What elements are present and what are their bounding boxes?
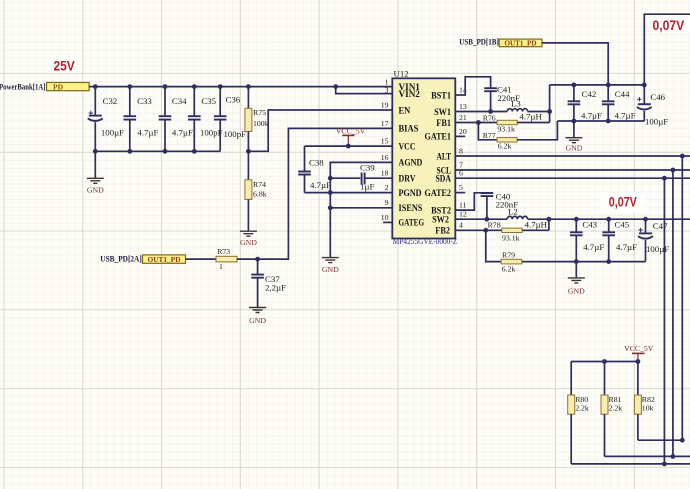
svg-text:L2: L2 <box>508 207 518 217</box>
svg-text:GND: GND <box>87 186 104 195</box>
capacitor C36 <box>214 87 246 152</box>
svg-text:4.7µF: 4.7µF <box>172 128 193 138</box>
pin numbers left column <box>381 77 389 221</box>
svg-text:L3: L3 <box>511 99 521 109</box>
svg-text:GND: GND <box>565 143 582 152</box>
svg-text:C39: C39 <box>360 162 375 172</box>
resistor R76 <box>483 114 550 134</box>
label 25V <box>48 56 80 73</box>
svg-text:100pF: 100pF <box>224 129 247 139</box>
svg-text:C32: C32 <box>103 96 118 106</box>
wire port OUT1 down to rail <box>542 43 608 85</box>
svg-text:2,2µF: 2,2µF <box>265 282 286 292</box>
svg-text:VCC_5V: VCC_5V <box>624 344 654 353</box>
svg-text:C42: C42 <box>582 89 597 99</box>
svg-text:18: 18 <box>381 169 389 178</box>
svg-text:4.7µH: 4.7µH <box>525 219 548 229</box>
svg-text:9: 9 <box>385 198 389 207</box>
svg-text:SDA: SDA <box>436 175 452 185</box>
svg-text:93.1k: 93.1k <box>502 234 520 243</box>
wire divider to EN <box>248 110 392 151</box>
svg-text:0,07V: 0,07V <box>609 195 637 210</box>
svg-text:ALT: ALT <box>437 152 452 162</box>
svg-text:100µF: 100µF <box>646 244 669 254</box>
svg-text:100µF: 100µF <box>101 128 124 138</box>
node ALT column <box>680 154 685 159</box>
svg-text:R74: R74 <box>253 180 266 189</box>
node C41 on SW1 <box>488 109 493 114</box>
wire SCL pin 7 <box>455 169 690 171</box>
svg-text:R76: R76 <box>483 114 496 123</box>
port PowerBank[1A] <box>0 82 89 91</box>
pin numbers right column <box>459 85 467 229</box>
svg-text:17: 17 <box>381 119 389 128</box>
wire pullup top rail <box>571 361 638 363</box>
capacitor C46 <box>637 85 668 127</box>
svg-text:R73: R73 <box>217 247 230 256</box>
svg-text:USB_PD[1B]: USB_PD[1B] <box>459 38 499 47</box>
svg-text:EN: EN <box>399 106 411 116</box>
svg-text:6.2k: 6.2k <box>502 264 516 273</box>
node R82/ALT <box>680 438 685 443</box>
ground GND under C32 <box>87 178 104 194</box>
svg-text:BST1: BST1 <box>431 91 451 101</box>
capacitor C37 <box>251 259 286 307</box>
node junctions on 25V bus <box>93 84 338 89</box>
node junctions on ground rail <box>93 149 197 154</box>
wire PGND pin 2 row <box>305 192 393 194</box>
svg-text:BIAS: BIAS <box>399 125 419 135</box>
svg-text:2.2k: 2.2k <box>609 404 623 413</box>
ground GND under C37 <box>249 308 266 326</box>
wire AGND pin 16 and down <box>330 162 392 257</box>
svg-text:2: 2 <box>385 183 389 192</box>
ground GND under R74 <box>240 231 257 247</box>
node junctions on output2 rail <box>485 217 648 222</box>
svg-text:16: 16 <box>381 153 389 162</box>
ground GND output1 <box>565 138 582 153</box>
resistor R74 <box>245 151 267 230</box>
svg-text:C34: C34 <box>172 96 187 106</box>
node junctions pullup rail <box>602 359 640 364</box>
capacitor C39 <box>330 162 392 191</box>
wire SW2 pin 12 <box>455 218 507 220</box>
wire capacitor ground rail <box>95 150 220 152</box>
label 0,07V top <box>649 17 690 34</box>
svg-text:GND: GND <box>249 316 266 325</box>
svg-text:PGND: PGND <box>399 189 422 199</box>
node C37 tap <box>255 257 260 262</box>
svg-text:4: 4 <box>459 221 463 230</box>
svg-text:100pF: 100pF <box>200 128 223 138</box>
svg-text:MP4255GVE-0000-Z: MP4255GVE-0000-Z <box>393 237 458 246</box>
wire gnd stub <box>573 121 575 137</box>
resistor R81 <box>601 362 622 457</box>
wire gnd stub output2 <box>575 262 577 278</box>
pin names right column <box>425 91 452 236</box>
svg-text:GND: GND <box>568 287 585 296</box>
wire GATE2 stub pin 5 <box>455 192 465 194</box>
node R81/SCL <box>671 454 676 459</box>
svg-text:GATE2: GATE2 <box>425 189 452 199</box>
port USB_PD[2A] <box>100 254 185 263</box>
svg-text:U12: U12 <box>394 69 409 79</box>
resistor R75 <box>245 87 269 152</box>
power VCC_5V <box>336 127 366 147</box>
capacitor C44 <box>602 85 636 121</box>
pin names left column <box>399 83 425 229</box>
wire BST1 pin 14 to C41 <box>455 77 490 95</box>
capacitor C41 <box>484 85 520 112</box>
svg-text:10: 10 <box>381 213 389 222</box>
svg-text:PD: PD <box>53 82 64 91</box>
capacitor C32 <box>88 87 124 152</box>
node FB1 divider tap <box>476 120 481 125</box>
svg-text:C33: C33 <box>137 96 152 106</box>
capacitor C47 <box>638 219 669 261</box>
resistor R77 <box>483 121 558 151</box>
wire FB2 tap down to R79 <box>486 230 501 261</box>
wire SDA column down <box>663 178 665 464</box>
wire GATEG stub pin 10 <box>383 221 392 223</box>
svg-text:C35: C35 <box>201 96 216 106</box>
svg-text:USB_PD[2A]: USB_PD[2A] <box>100 254 142 263</box>
svg-text:93.1k: 93.1k <box>497 125 515 134</box>
ground GND output2 <box>568 278 585 296</box>
svg-text:R77: R77 <box>483 131 496 140</box>
wire GATE1 stub pin 20 <box>455 135 465 137</box>
node FB2 divider tap <box>483 228 488 233</box>
wire L3 to output node <box>528 111 550 113</box>
svg-text:19: 19 <box>381 100 389 109</box>
wire SCL column down <box>672 170 674 456</box>
svg-text:2.2k: 2.2k <box>575 404 589 413</box>
svg-text:VCC: VCC <box>399 142 416 152</box>
svg-text:OUT1_PD: OUT1_PD <box>148 255 181 264</box>
svg-text:C46: C46 <box>650 92 665 102</box>
wire output rail top <box>550 84 645 86</box>
node L3 output <box>547 109 552 114</box>
wire output riser <box>549 85 551 123</box>
svg-text:4.7µF: 4.7µF <box>310 180 331 190</box>
svg-text:C38: C38 <box>309 157 324 167</box>
wire ISENS pin 9 <box>330 207 392 209</box>
svg-text:GATE1: GATE1 <box>425 133 452 143</box>
capacitor C34 <box>159 87 193 152</box>
resistor R78 <box>488 220 549 242</box>
svg-text:6.2k: 6.2k <box>498 142 512 151</box>
wire port to R73 <box>186 258 217 260</box>
svg-text:8: 8 <box>459 146 463 155</box>
svg-text:FB2: FB2 <box>435 227 450 237</box>
svg-text:C47: C47 <box>653 221 668 231</box>
svg-text:100µF: 100µF <box>645 116 668 126</box>
svg-text:1µF: 1µF <box>360 181 374 191</box>
node junctions on output rail <box>572 83 647 88</box>
power VCC_5V bottom <box>624 344 654 361</box>
wire R81 to SCL <box>605 455 690 457</box>
svg-text:C36: C36 <box>226 95 241 105</box>
svg-text:VCC_5V: VCC_5V <box>336 127 366 136</box>
svg-text:R75: R75 <box>253 108 266 117</box>
svg-text:SW1: SW1 <box>434 108 451 118</box>
ground GND under AGND column <box>322 258 339 274</box>
svg-text:4.7µF: 4.7µF <box>616 242 637 252</box>
resistor R79 <box>501 250 576 273</box>
wire SDA pin 6 <box>455 177 690 179</box>
wire R80 to SDA <box>571 463 690 465</box>
svg-text:4.7µF: 4.7µF <box>581 111 602 121</box>
op-amp U12 MP4255GVE body <box>392 69 457 246</box>
svg-text:21: 21 <box>459 113 467 122</box>
node junctions on AGND column <box>328 176 333 210</box>
wire output2 gnd rail <box>576 261 645 263</box>
wire output2 rail <box>528 218 690 220</box>
svg-text:C44: C44 <box>615 89 630 99</box>
wire BST2 pin 11 to C40 <box>455 193 482 210</box>
svg-text:C43: C43 <box>582 220 597 230</box>
svg-text:3: 3 <box>385 85 389 94</box>
svg-text:GND: GND <box>240 238 257 247</box>
wire SW1 pin 13 <box>455 111 507 113</box>
resistor R80 <box>568 362 589 464</box>
svg-text:13: 13 <box>459 102 467 111</box>
svg-text:4.7µF: 4.7µF <box>615 111 636 121</box>
node R75/R74 divider <box>246 149 251 154</box>
svg-text:11: 11 <box>459 201 467 210</box>
wire R82 to ALT <box>638 439 682 441</box>
svg-text:100k: 100k <box>253 119 269 128</box>
port USB_PD[1B] <box>459 38 542 48</box>
wire ALT column down <box>681 156 683 440</box>
svg-text:ISENS: ISENS <box>399 204 423 214</box>
svg-text:VIN2: VIN2 <box>399 90 421 100</box>
capacitor C35 <box>188 87 223 152</box>
svg-text:0,07V: 0,07V <box>653 18 685 33</box>
wire FB1 tap down to R77 <box>478 123 497 140</box>
capacitor C42 <box>568 85 602 121</box>
wire VIN2 jog <box>336 87 393 94</box>
node junctions on output2 gnd rail <box>574 259 611 264</box>
wire output1 gnd rail <box>557 120 644 122</box>
wire FB2 pin 4 row <box>455 229 502 231</box>
wire FB1 pin 21 row <box>455 122 497 124</box>
svg-text:5: 5 <box>459 183 463 192</box>
svg-text:R79: R79 <box>502 250 515 259</box>
node SDA column <box>662 176 667 181</box>
capacitor C43 <box>570 219 604 261</box>
svg-text:GND: GND <box>322 265 339 274</box>
svg-text:20: 20 <box>459 127 467 136</box>
resistor R73 <box>216 247 237 271</box>
wire VCC pin 15 <box>305 145 393 147</box>
svg-text:DRV: DRV <box>399 175 416 185</box>
inductor L3 <box>507 99 542 122</box>
node VCC_5V tap <box>346 144 351 149</box>
svg-text:10k: 10k <box>642 404 654 413</box>
svg-text:25V: 25V <box>54 58 75 73</box>
node R80/SDA <box>662 462 667 467</box>
svg-text:15: 15 <box>381 137 389 146</box>
svg-text:AGND: AGND <box>399 159 423 169</box>
node junctions on gnd rail <box>572 119 611 124</box>
svg-text:OUT1_PD: OUT1_PD <box>505 38 537 47</box>
capacitor C40 <box>481 191 519 219</box>
wire 0,07V feed to edge <box>644 14 690 85</box>
wire ALT pin 8 <box>455 155 690 157</box>
svg-text:C45: C45 <box>615 220 630 230</box>
svg-text:PowerBank[1A]: PowerBank[1A] <box>0 83 46 92</box>
svg-text:4.7µF: 4.7µF <box>137 128 158 138</box>
capacitor C33 <box>124 87 159 152</box>
svg-text:4.7µH: 4.7µH <box>519 112 542 122</box>
svg-text:4.7µF: 4.7µF <box>583 242 604 252</box>
wire 25V bus <box>89 86 392 88</box>
capacitor C45 <box>602 219 637 261</box>
svg-text:FB1: FB1 <box>436 119 451 129</box>
svg-text:1: 1 <box>219 262 223 271</box>
wire output2 down to R78 <box>548 219 550 230</box>
svg-text:SW2: SW2 <box>432 216 449 226</box>
node SCL column <box>671 168 676 173</box>
label 0,07V mid <box>601 193 644 214</box>
resistor R82 <box>634 362 654 441</box>
svg-text:R78: R78 <box>488 220 501 229</box>
wire R73 to BIAS riser <box>237 128 392 259</box>
wire to ground under C32 <box>94 151 96 178</box>
svg-text:GATEG: GATEG <box>399 219 425 229</box>
svg-text:6.8k: 6.8k <box>253 189 267 198</box>
inductor L2 <box>507 207 547 230</box>
capacitor C38 <box>298 146 331 193</box>
